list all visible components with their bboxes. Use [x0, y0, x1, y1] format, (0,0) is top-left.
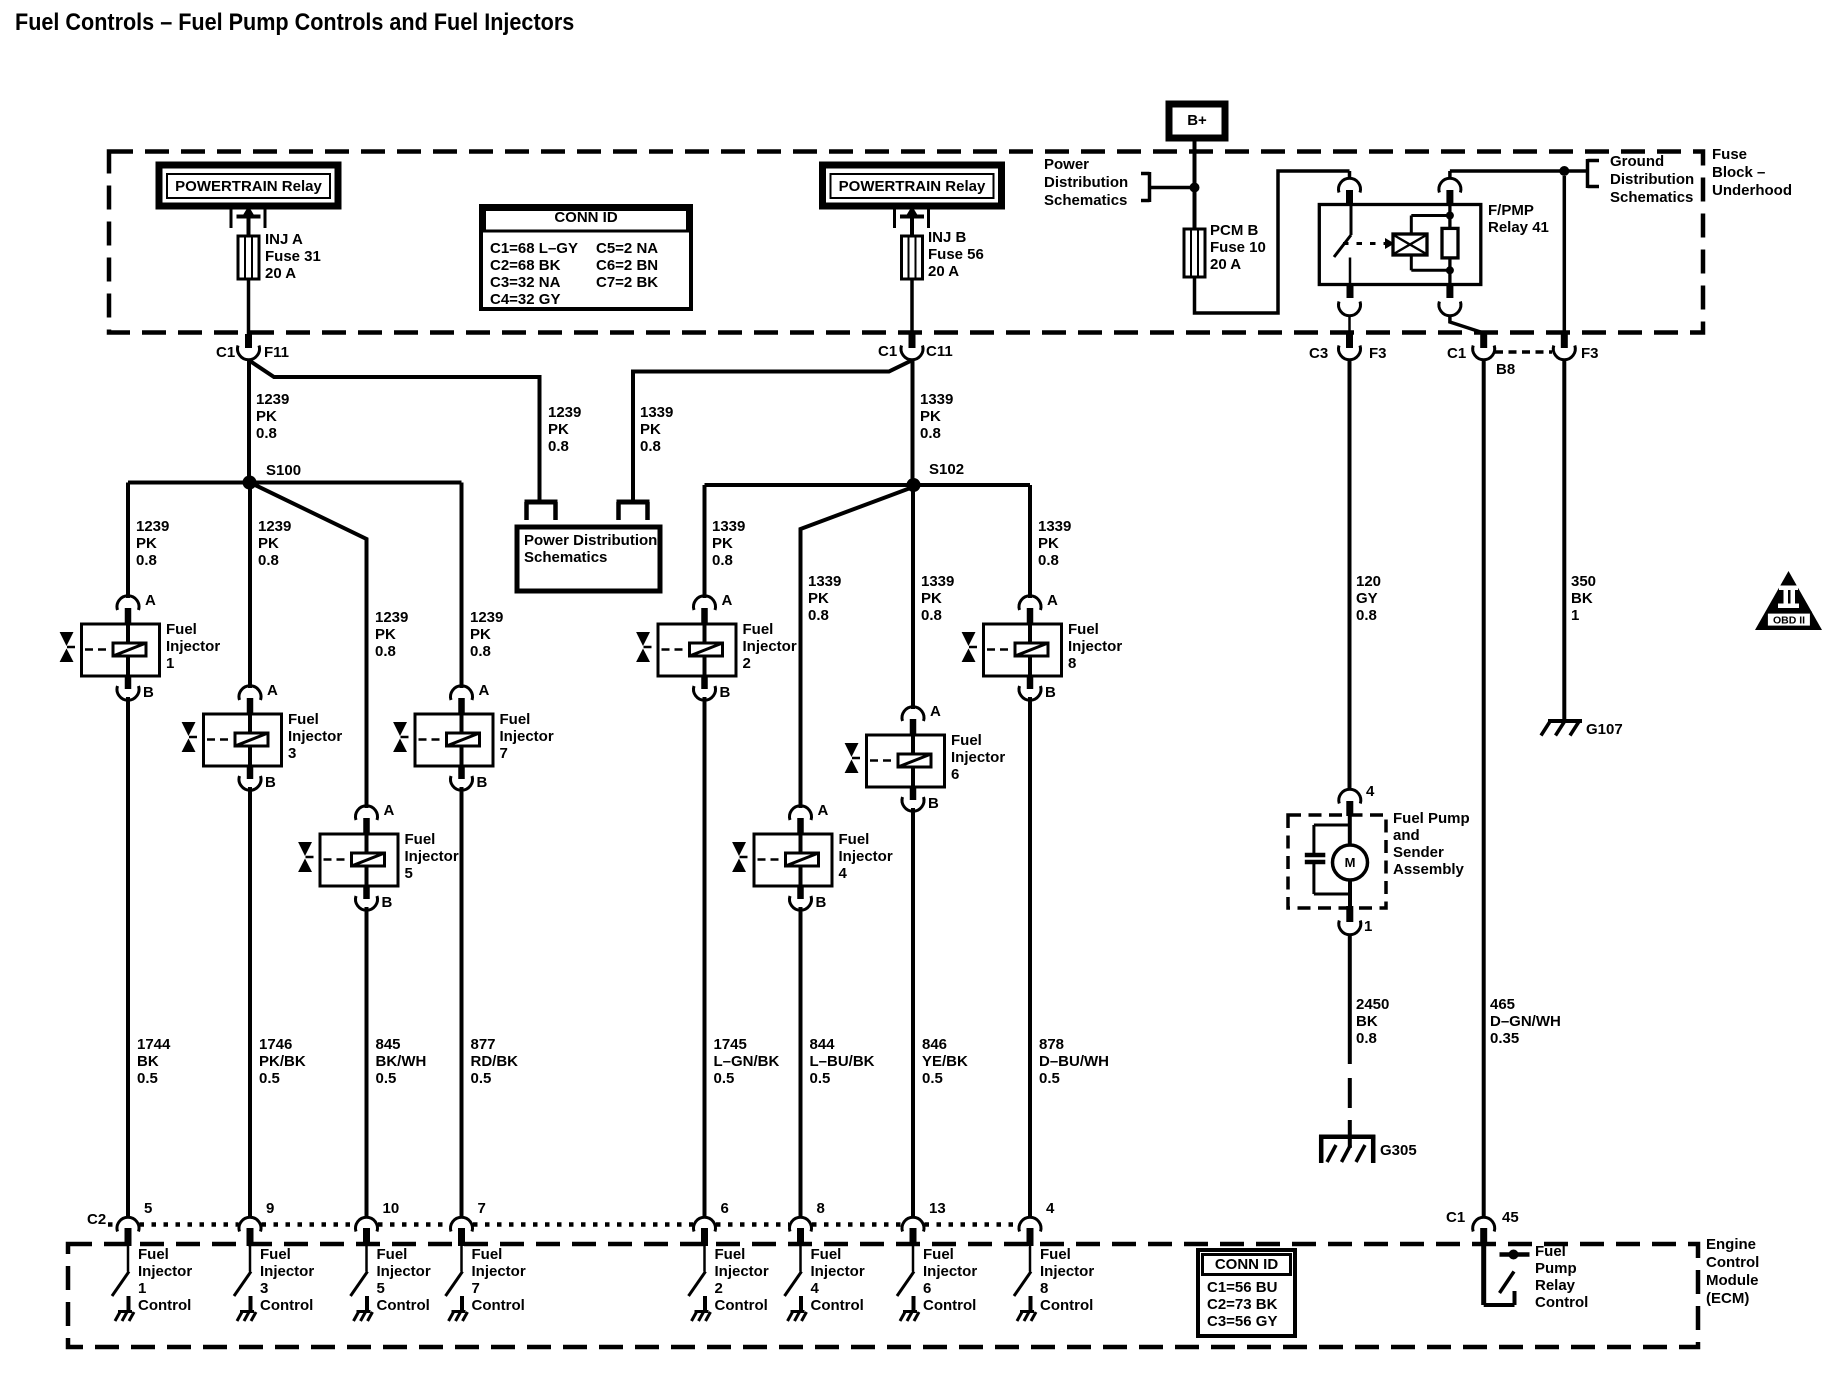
wire 1339 PK to fuel injector 2: [703, 485, 707, 598]
label: pin A of fuel injector 3: [267, 682, 278, 699]
label: Power Distribution Schematics (top): [1044, 156, 1128, 210]
label: wire 1239 PK 0.8 (injector 7): [470, 609, 503, 660]
wire INJ B fuse to connector C1 C11: [910, 279, 914, 334]
wire INJ A fuse to connector C1 F11: [247, 279, 251, 334]
label: pin B of fuel injector 8: [1045, 684, 1056, 701]
label: wire 1239 PK 0.8 (branch): [548, 404, 581, 455]
Power Distribution Schematics box: [517, 527, 660, 591]
ECM connector pin 4 (fuel injector 8 control): [1019, 1217, 1041, 1231]
junction dot on B+ feed: [1190, 183, 1200, 193]
label: Fuel Injector 3 Control: [260, 1246, 314, 1314]
label: pin A of fuel injector 5: [384, 802, 395, 819]
label: POWERTRAIN Relay (left): [167, 178, 330, 195]
label: wire 877: [471, 1036, 519, 1087]
off-page bracket to Power Distribution Schematics (right): [617, 500, 650, 505]
ECM connector pin 10 (fuel injector 5 control): [356, 1217, 378, 1231]
ECM fuel pump relay control driver switch: [1481, 1246, 1486, 1305]
fuel injector 5 (solenoid valve) with pins A and B: [298, 806, 398, 911]
label: Fuel Pump and Sender Assembly: [1393, 810, 1470, 878]
wire B+ to PCM B fuse: [1193, 138, 1197, 229]
fuel injector 3 (solenoid valve) with pins A and B: [182, 686, 282, 791]
ECM driver switch for fuel injector 1 control: [127, 1246, 130, 1272]
ECM driver switch for fuel injector 6 control: [912, 1246, 915, 1272]
wire to power distribution schematics bracket: [1151, 186, 1195, 190]
label: F3 (ground side): [1581, 345, 1599, 362]
ground G305: [1319, 1135, 1375, 1140]
fuel injector 1 (solenoid valve) with pins A and B: [60, 596, 160, 701]
wire circuit 1744 from injector to ECM: [126, 697, 130, 1217]
label: pin number 45: [1502, 1209, 1519, 1226]
wire circuit 877 from injector to ECM: [460, 787, 464, 1217]
junction dot to ground distribution schematics: [1559, 166, 1569, 176]
relay switch output connector: [1339, 302, 1361, 316]
label: pin number 8: [817, 1200, 825, 1217]
engine control module (ECM) dashed boundary box: [68, 1244, 1698, 1347]
S102 bus wire: [705, 483, 1031, 487]
ECM driver switch for fuel injector 7 control: [460, 1246, 463, 1272]
label: pin A of fuel injector 2: [722, 592, 733, 609]
label: wire 2450 BK 0.8: [1356, 996, 1389, 1047]
label: Fuel Pump Relay Control: [1535, 1243, 1588, 1311]
label: pin B of fuel injector 3: [265, 774, 276, 791]
label: connector C2: [87, 1211, 106, 1228]
relay K2 POWERTRAIN Relay (right) box: [823, 165, 1002, 206]
label: Fuel Injector 4: [839, 831, 893, 882]
connector C1 F11: [245, 334, 252, 348]
wire 1239 PK to fuel injector 1: [126, 483, 130, 599]
label: pin A of fuel injector 4: [818, 802, 829, 819]
label: pin number 13: [929, 1200, 946, 1217]
label: F11: [264, 344, 289, 361]
ECM driver switch for fuel injector 3 control: [249, 1246, 252, 1272]
relay coil leads: [1410, 216, 1413, 235]
label: Fuel Injector 8: [1068, 621, 1122, 672]
fuse INJ A Fuse 31 20 A: [238, 236, 259, 279]
relay coil symbol (box with X) and arrowhead: [1385, 238, 1395, 249]
label: Fuel Injector 4 Control: [811, 1246, 865, 1314]
fuel pump motor M: [1348, 816, 1352, 845]
wire 1239 PK to fuel injector 7: [460, 483, 464, 689]
label: pin A of fuel injector 7: [479, 682, 490, 699]
connector F3 (ground distribution): [1563, 176, 1567, 334]
wire circuit 878 from injector to ECM: [1028, 697, 1032, 1217]
S100 bus wire: [128, 481, 462, 485]
wire circuit 846 from injector to ECM: [911, 808, 915, 1217]
label: S100: [266, 462, 301, 479]
ECM connector pin 13 (fuel injector 6 control): [902, 1217, 924, 1231]
label: wire 465 D-GN/WH 0.35: [1490, 996, 1561, 1047]
connector C2 dotted separator line: [108, 1222, 117, 1227]
relay internal resistor: [1448, 206, 1451, 228]
OBD II triangle symbol: [1755, 571, 1822, 630]
ECM connector pin 6 (fuel injector 2 control): [693, 1217, 715, 1231]
label: Fuel Injector 7 Control: [472, 1246, 526, 1314]
label: Fuse Block - Underhood: [1712, 146, 1792, 200]
label: wire 1744: [137, 1036, 170, 1087]
relay switch contact (inside relay): [1350, 206, 1353, 235]
off-page bracket Power Distribution Schematics (top): [1148, 172, 1152, 202]
battery feed B+ box: [1169, 104, 1225, 138]
wire 120 GY relay to fuel pump: [1348, 360, 1352, 790]
wire 1239 PK trunk down to S100: [247, 360, 251, 484]
label: pin B of fuel injector 4: [816, 894, 827, 911]
label: pin A of fuel injector 6: [930, 703, 941, 720]
label: wire 1339 PK 0.8 (injector 6): [921, 573, 954, 624]
label: C1 (left fuse block connector): [216, 344, 235, 361]
CONN ID table rows col2: [596, 240, 658, 291]
fuse INJ B Fuse 56 20 A: [902, 236, 923, 279]
label: pin number 4: [1046, 1200, 1054, 1217]
fuel pump capacitor branch: [1314, 824, 1350, 827]
ECM driver switch for fuel injector 4 control: [799, 1246, 802, 1272]
label: wire 1239 PK 0.8 (injector 1): [136, 518, 169, 569]
label: pin number 6: [721, 1200, 729, 1217]
label: wire 350 BK 1: [1571, 573, 1596, 624]
relay coil output connector: [1439, 302, 1461, 316]
label: Fuel Injector 1 Control: [138, 1246, 192, 1314]
CONN ID table header: [481, 209, 691, 226]
fuel pump connector pin 4: [1339, 789, 1361, 803]
label: pin B of fuel injector 5: [382, 894, 393, 911]
fuel injector 4 (solenoid valve) with pins A and B: [732, 806, 832, 911]
label: Fuel Injector 7: [500, 711, 554, 762]
relay K1 POWERTRAIN Relay (left) terminal bracket and pin: [230, 209, 233, 228]
connector C3 F3: [1346, 334, 1353, 348]
ECM connector pin 7 (fuel injector 7 control): [451, 1217, 473, 1231]
connector C1 (relay control): [1480, 333, 1487, 348]
label: INJ A Fuse 31 20 A: [265, 231, 321, 282]
label: wire 1339 PK 0.8 (injector 2): [712, 518, 745, 569]
label: Fuel Injector 2: [743, 621, 797, 672]
wire 1339 PK branch to power distribution schematics: [633, 361, 911, 503]
label: pin B of fuel injector 2: [720, 684, 731, 701]
wire from ground distribution node to relay coil pin: [1448, 171, 1452, 179]
label: wire 1239 PK 0.8 (injector 5): [375, 609, 408, 660]
label: Fuel Injector 5: [405, 831, 459, 882]
label: C1 (ECM): [1446, 1209, 1465, 1226]
fuel injector 8 (solenoid valve) with pins A and B: [962, 596, 1062, 701]
wire 1339 PK to fuel injector 8: [1028, 485, 1032, 598]
ECM connector pin 5 (fuel injector 1 control): [117, 1217, 139, 1231]
label: wire 1239 PK 0.8 (injector 3): [258, 518, 291, 569]
wire 465 D-GN/WH relay to ECM pin 45: [1482, 360, 1486, 1218]
wire 1239 PK to fuel injector 5: [253, 484, 367, 808]
label: pin A of fuel injector 8: [1047, 592, 1058, 609]
label: pin 1: [1364, 918, 1372, 935]
off-page bracket to Power Distribution Schematics (left): [525, 500, 558, 505]
ground symbol inside ECM (injector 3 driver): [240, 1310, 254, 1313]
relay K2 POWERTRAIN Relay (right) terminal bracket and pin: [893, 209, 896, 228]
ECM driver switch for fuel injector 2 control: [703, 1246, 706, 1272]
wire 1239 PK branch to power distribution schematics: [250, 361, 540, 503]
label: Fuel Injector 8 Control: [1040, 1246, 1094, 1314]
label: wire 1339 PK 0.8 (branch): [640, 404, 673, 455]
label: Power Distribution Schematics box text: [524, 532, 657, 566]
label: Fuel Injector 6: [951, 732, 1005, 783]
ground symbol inside ECM (injector 4 driver): [791, 1310, 805, 1313]
label: wire 1239 PK 0.8 (trunk): [256, 391, 289, 442]
label: Engine Control Module (ECM): [1706, 1236, 1759, 1308]
dashed connector line C1 to F3: [1495, 350, 1552, 354]
wire 1339 PK to fuel injector 6: [911, 489, 915, 709]
off-page bracket Ground Distribution Schematics: [1586, 159, 1590, 188]
label: C1 (relay control connector): [1447, 345, 1466, 362]
wire 2450 BK fuel pump to ground G305: [1348, 935, 1352, 1065]
label: Fuel Injector 5 Control: [377, 1246, 431, 1314]
ECM driver switch for fuel injector 5 control: [365, 1246, 368, 1272]
CONN ID table (fuse block): [481, 206, 691, 309]
label: Fuel Injector 2 Control: [715, 1246, 769, 1314]
label: Fuel Injector 1: [166, 621, 220, 672]
CONN ID table (ECM): [1198, 1250, 1295, 1336]
label: M (motor): [1336, 854, 1364, 871]
label: S102: [929, 461, 964, 478]
label: wire 846: [922, 1036, 968, 1087]
wire circuit 1745 from injector to ECM: [703, 697, 707, 1217]
label: wire 1339 PK 0.8 (injector 4): [808, 573, 841, 624]
label: pin number 9: [266, 1200, 274, 1217]
wire 1339 PK to fuel injector 4: [801, 487, 914, 808]
label: wire 844: [810, 1036, 875, 1087]
wire circuit 845 from injector to ECM: [365, 907, 369, 1217]
label: C1 (right fuse block connector): [878, 343, 897, 360]
wire 350 BK to ground G107: [1562, 360, 1566, 722]
label: F/PMP Relay 41: [1488, 202, 1549, 236]
ECM CONN ID header: [1198, 1256, 1295, 1273]
fuse PCM B Fuse 10 20 A: [1184, 229, 1205, 277]
ground symbol inside ECM (injector 1 driver): [118, 1310, 132, 1313]
label: wire 1745: [714, 1036, 780, 1087]
ground symbol inside ECM (injector 8 driver): [1020, 1310, 1034, 1313]
label: G107: [1586, 721, 1623, 738]
F/PMP Relay 41 coil pin connector: [1439, 178, 1461, 192]
label: pin 4: [1366, 783, 1374, 800]
wire circuit 844 from injector to ECM: [799, 907, 803, 1217]
fuse block underhood dashed boundary box: [109, 152, 1703, 333]
label: C3: [1309, 345, 1328, 362]
fuel injector 6 (solenoid valve) with pins A and B: [845, 707, 945, 812]
label: F3 (fuel pump feed): [1369, 345, 1387, 362]
label: B+: [1169, 112, 1225, 129]
label: INJ B Fuse 56 20 A: [928, 229, 984, 280]
svg-text:OBD II: OBD II: [1773, 615, 1805, 627]
fuel injector 7 (solenoid valve) with pins A and B: [393, 686, 493, 791]
splice S102: [907, 478, 921, 492]
wire PCM B fuse to F/PMP relay switch: [1195, 171, 1350, 313]
ECM connector pin 8 (fuel injector 4 control): [789, 1217, 811, 1231]
ground symbol inside ECM (injector 6 driver): [903, 1310, 917, 1313]
label: wire 1339 PK 0.8 (trunk): [920, 391, 953, 442]
label: wire 1339 PK 0.8 (injector 8): [1038, 518, 1071, 569]
connector C1 C11: [909, 334, 916, 348]
fuel pump connector pin 1: [1348, 880, 1352, 906]
wire 1239 PK to fuel injector 3: [248, 489, 252, 688]
ground symbol inside ECM (injector 2 driver): [695, 1310, 709, 1313]
fuel pump and sender assembly dashed box: [1288, 815, 1386, 908]
label: PCM B Fuse 10 20 A: [1210, 222, 1266, 273]
label: wire 878: [1039, 1036, 1109, 1087]
wire circuit 1746 from injector to ECM: [248, 787, 252, 1217]
label: pin B of fuel injector 6: [928, 795, 939, 812]
ECM connector pin 45 C1: [1473, 1217, 1495, 1231]
ECM CONN ID rows: [1207, 1279, 1277, 1330]
label: pin number 7: [478, 1200, 486, 1217]
label: pin number 10: [383, 1200, 400, 1217]
label: wire 120 GY 0.8: [1356, 573, 1381, 624]
label: pin B of fuel injector 7: [477, 774, 488, 791]
ground symbol inside ECM (injector 7 driver): [452, 1310, 466, 1313]
label: POWERTRAIN Relay (right): [831, 178, 994, 195]
label: G305: [1380, 1142, 1417, 1159]
ground symbol inside ECM (injector 5 driver): [357, 1310, 371, 1313]
F/PMP Relay 41 pin 1 connector (switch input): [1348, 171, 1352, 179]
wire 1339 PK trunk down to S102: [911, 360, 915, 486]
relay F/PMP Relay 41 box: [1319, 205, 1481, 285]
ground G107: [1548, 719, 1582, 723]
fuel injector 2 (solenoid valve) with pins A and B: [636, 596, 736, 701]
label: Fuel Injector 6 Control: [923, 1246, 977, 1314]
ECM connector pin 9 (fuel injector 3 control): [239, 1217, 261, 1231]
CONN ID table rows col1: [490, 240, 578, 308]
label: wire 845: [376, 1036, 427, 1087]
label: Ground Distribution Schematics: [1610, 153, 1694, 207]
splice S100: [243, 476, 257, 490]
relay K1 POWERTRAIN Relay (left) box: [159, 165, 338, 206]
relay coil junction dots: [1446, 212, 1454, 220]
label: pin A of fuel injector 1: [145, 592, 156, 609]
label: wire 1746: [259, 1036, 306, 1087]
label: C11: [926, 343, 953, 360]
label: B8: [1496, 361, 1515, 378]
label: pin number 5: [144, 1200, 152, 1217]
ECM driver switch for fuel injector 8 control: [1029, 1246, 1032, 1272]
title: Fuel Controls - Fuel Pump Controls and Fuel Injectors: [15, 10, 574, 36]
label: Fuel Injector 3: [288, 711, 342, 762]
relay actuator dashed link: [1343, 242, 1392, 245]
label: pin B of fuel injector 1: [143, 684, 154, 701]
